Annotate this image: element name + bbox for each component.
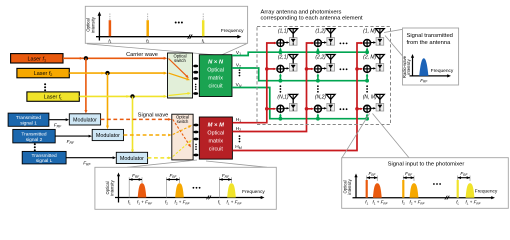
- svg-text:Frequency: Frequency: [475, 188, 498, 194]
- svg-text:Modulator: Modulator: [73, 117, 97, 123]
- svg-text:matrix: matrix: [208, 76, 223, 82]
- array row ellipsis dots: [340, 43, 348, 111]
- wire transmitted signal 1 to modulator 1: [49, 118, 69, 121]
- svg-text:(2,1): (2,1): [278, 55, 289, 61]
- transmitted signal 1 box: [8, 113, 49, 126]
- photomixer input x-axis: [353, 188, 498, 199]
- modulated spectrum group fL: [218, 173, 243, 206]
- svg-text:Signal transmitted: Signal transmitted: [407, 33, 453, 39]
- node V2 label: [236, 62, 241, 68]
- laser column ellipsis: [44, 83, 46, 91]
- svg-text:Transmitted: Transmitted: [16, 115, 41, 121]
- svg-text:Transmitted: Transmitted: [32, 153, 57, 159]
- wire H1 to column-1 line: [232, 42, 277, 123]
- modulator 1 box: [69, 114, 100, 125]
- junction green row bus to photomixer: [316, 113, 320, 120]
- laser f2 box: [17, 68, 69, 77]
- carrier spectrum axis break: [188, 35, 193, 39]
- wire laser f1 junction down to modulator 1: [84, 58, 87, 113]
- junction green row bus to photomixer: [365, 73, 369, 82]
- V output ellipsis: [239, 69, 241, 76]
- dashed wire modulator 2 to optical switch 2: [124, 134, 172, 137]
- svg-text:Laser f1: Laser f1: [27, 56, 46, 62]
- optical switch 1 (carrier): [168, 53, 193, 98]
- node H2 label: [236, 126, 241, 132]
- svg-text:(1,1): (1,1): [278, 29, 289, 35]
- svg-text:intensity: intensity: [406, 58, 411, 74]
- svg-text:Transmitted: Transmitted: [21, 132, 46, 138]
- svg-text:(N, M): (N, M): [363, 95, 377, 101]
- photomixer input ellipsis: [433, 183, 441, 185]
- junction green row bus to photomixer: [365, 47, 369, 54]
- NxN optical matrix circuit: [199, 55, 232, 97]
- junction red column line to photomixer: [355, 67, 363, 71]
- svg-text:(2,2): (2,2): [315, 55, 326, 61]
- dashed wire modulator L to optical switch 2: [148, 157, 172, 160]
- radio-wave spectrum x-axis: [410, 68, 454, 78]
- wire V2 to row-2 bus: [232, 68, 367, 81]
- svg-text:signal 1: signal 1: [20, 120, 37, 126]
- carrier spike f2: [146, 14, 149, 45]
- svg-text:corresponding to each antenna: corresponding to each antenna element: [261, 16, 364, 22]
- svg-text:circuit: circuit: [209, 84, 224, 90]
- FRF label modulator 1: [54, 123, 62, 129]
- modulated spectrum x-axis: [115, 189, 265, 199]
- MxM optical matrix circuit: [199, 117, 232, 159]
- photomixer input inset box: [342, 158, 509, 209]
- junction red column line to photomixer: [305, 67, 314, 71]
- svg-text:Modulator: Modulator: [120, 156, 144, 162]
- photomixer input inset title: [388, 162, 465, 168]
- FRF label modulator 2: [67, 139, 75, 145]
- photomixer input leader lines: [342, 114, 409, 158]
- modulated spectrum group f1: [128, 173, 153, 206]
- modulated spectrum inset box: [95, 167, 276, 209]
- svg-text:intensity: intensity: [90, 16, 95, 33]
- junction green row bus to photomixer: [316, 73, 320, 82]
- svg-text:(N,2): (N,2): [315, 95, 326, 101]
- junction red column line to photomixer: [265, 67, 276, 71]
- signal wave label: [138, 113, 169, 119]
- svg-text:M × M: M × M: [208, 122, 224, 128]
- wire V1 to row-1 bus: [232, 52, 367, 55]
- svg-text:Frequency: Frequency: [431, 68, 454, 74]
- wire laser f2 junction down to modulator 2: [106, 73, 109, 129]
- ports between optical switch 2 and MxM circuit: [194, 124, 199, 157]
- antenna element (1,M) photomixer U1M: [363, 29, 384, 47]
- photomixer input group f1: [365, 171, 388, 205]
- modulated spectrum ellipsis: [193, 187, 201, 189]
- svg-text:Frequency: Frequency: [242, 189, 265, 195]
- antenna element (N,M) photomixer UNM: [363, 94, 385, 112]
- H output ellipsis: [239, 135, 241, 142]
- transmitted signal column ellipsis: [34, 143, 36, 151]
- svg-text:Signal wave: Signal wave: [138, 113, 169, 119]
- radio-wave blue peak: [419, 58, 428, 76]
- svg-text:N × N: N × N: [208, 60, 224, 66]
- optical switch 2 (signal): [172, 114, 193, 160]
- svg-text:(N,1): (N,1): [277, 95, 288, 101]
- array column ellipsis dots: [280, 85, 369, 92]
- photomixer input group f2: [402, 171, 426, 205]
- antenna element (2,M) photomixer U2M: [363, 55, 384, 73]
- modulated spectrum leader lines: [127, 160, 267, 167]
- carrier inset leader lines: [87, 44, 247, 55]
- svg-text:intensity: intensity: [347, 178, 352, 194]
- modulator L box: [116, 152, 147, 163]
- antenna element (1,1) photomixer U11: [277, 29, 298, 47]
- carrier spike f1: [108, 14, 111, 45]
- junction dot on laser f2 wire: [105, 71, 109, 75]
- laser fL box: [27, 92, 79, 101]
- svg-text:Carrier wave: Carrier wave: [126, 52, 158, 58]
- wire laser fL junction down to modulator L: [131, 96, 134, 153]
- modulated spectrum y-axis: [105, 173, 120, 203]
- wire VN to row-N bus: [232, 88, 367, 119]
- junction red column line to photomixer: [265, 107, 276, 111]
- modulator 2 box: [92, 129, 123, 140]
- modulated spectrum axis break: [207, 196, 212, 200]
- antenna element (N,1) photomixer UN1: [277, 94, 298, 112]
- laser f1 box: [11, 54, 63, 63]
- junction dot on laser fL wire: [130, 94, 134, 98]
- carrier spike fL: [202, 14, 205, 45]
- carrier spectrum x-axis (Frequency): [96, 28, 244, 39]
- wire laser fL to optical switch: [79, 95, 167, 98]
- junction green row bus to photomixer: [279, 73, 283, 82]
- svg-text:(1,2): (1,2): [315, 29, 326, 35]
- svg-text:from the antenna: from the antenna: [407, 40, 452, 46]
- wire HM to column-M line: [232, 42, 364, 151]
- svg-text:signal L: signal L: [36, 158, 53, 164]
- antenna output leader lines: [384, 29, 403, 56]
- node VN label: [236, 82, 242, 88]
- svg-text:intensity: intensity: [110, 179, 115, 195]
- svg-text:Optical: Optical: [207, 68, 224, 74]
- node H1 label: [236, 117, 241, 123]
- wire laser f2 to optical switch: [69, 72, 167, 75]
- svg-text:circuit: circuit: [209, 146, 224, 152]
- svg-text:switch: switch: [177, 119, 189, 124]
- radio-wave spectrum y-axis: [402, 54, 414, 78]
- node HM label: [235, 144, 241, 150]
- junction red column line to photomixer: [305, 107, 314, 111]
- junction green row bus to photomixer: [316, 47, 320, 54]
- photomixer input group fL: [456, 171, 481, 205]
- carrier spectrum ellipsis: [175, 22, 183, 24]
- carrier-wave spectrum inset box: [85, 6, 247, 43]
- svg-text:Laser fL: Laser fL: [44, 95, 63, 101]
- array antenna dashed box: [257, 27, 391, 125]
- junction dot on laser f1 wire: [84, 56, 88, 60]
- svg-text:matrix: matrix: [208, 138, 223, 144]
- junction green row bus to photomixer: [279, 113, 283, 120]
- svg-text:Frequency: Frequency: [221, 28, 244, 34]
- modulated spectrum group f2: [165, 173, 191, 206]
- transmitted signal inset title: [407, 33, 453, 46]
- svg-text:Modulator: Modulator: [96, 133, 120, 139]
- svg-text:signal 2: signal 2: [26, 137, 43, 143]
- transmitted signal inset box: [403, 28, 459, 85]
- antenna element (2,2) photomixer U22: [314, 55, 335, 73]
- svg-text:Signal input to the photomixer: Signal input to the photomixer: [388, 162, 465, 168]
- transmitted signal L box: [22, 151, 66, 164]
- FRF label under blue peak: [420, 78, 428, 84]
- wire transmitted signal 2 to modulator 2: [55, 135, 92, 138]
- svg-text:(2, M): (2, M): [363, 55, 376, 61]
- wire transmitted signal L to modulator L: [66, 156, 116, 159]
- array antenna title: [261, 9, 364, 21]
- node V1 label: [236, 50, 241, 56]
- antenna element (1,2) photomixer U12: [314, 29, 335, 47]
- junction green row bus to photomixer: [365, 113, 369, 120]
- wire laser f1 to optical switch: [63, 57, 167, 60]
- antenna element (N,2) photomixer UN2: [314, 94, 335, 112]
- transmitted signal 2 box: [13, 129, 55, 143]
- svg-text:(1, M): (1, M): [363, 29, 376, 35]
- svg-text:Array antenna and photomixers: Array antenna and photomixers: [261, 9, 342, 15]
- antenna element (2,1) photomixer U21: [277, 55, 298, 73]
- wire H2 to column-2 line: [232, 42, 314, 132]
- svg-text:Laser f2: Laser f2: [34, 71, 53, 77]
- junction red column line to photomixer: [355, 107, 363, 111]
- photomixer input y-axis: [343, 174, 358, 198]
- FRF label modulator L: [83, 161, 91, 167]
- dashed wire modulator 1 to optical switch 2: [101, 118, 172, 121]
- photomixer input axis break: [445, 196, 450, 200]
- ports between optical switch 1 and NxN circuit: [193, 65, 198, 95]
- carrier spectrum y-axis (Optical intensity): [86, 12, 102, 41]
- svg-text:switch: switch: [174, 58, 186, 63]
- junction green row bus to photomixer: [279, 47, 283, 54]
- svg-text:Optical: Optical: [207, 130, 224, 136]
- carrier wave label: [126, 52, 158, 58]
